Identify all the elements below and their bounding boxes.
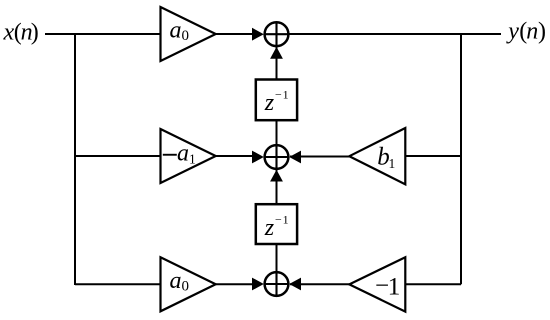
svg-text:a: a [177,141,189,167]
svg-text:z: z [264,90,275,116]
svg-text:1: 1 [389,156,396,171]
svg-text:0: 0 [182,28,190,44]
svg-text:x: x [3,19,15,45]
svg-text:−1: −1 [275,213,289,227]
svg-text:z: z [264,215,275,241]
svg-text:y: y [506,19,519,45]
svg-text:1: 1 [189,151,196,166]
svg-text:0: 0 [182,279,190,295]
svg-text:): ) [538,19,546,45]
svg-text:): ) [31,19,39,45]
svg-text:a: a [170,268,182,294]
svg-text:1: 1 [388,272,401,301]
svg-text:n: n [526,19,538,45]
svg-text:a: a [170,18,182,44]
svg-text:−1: −1 [275,87,289,101]
